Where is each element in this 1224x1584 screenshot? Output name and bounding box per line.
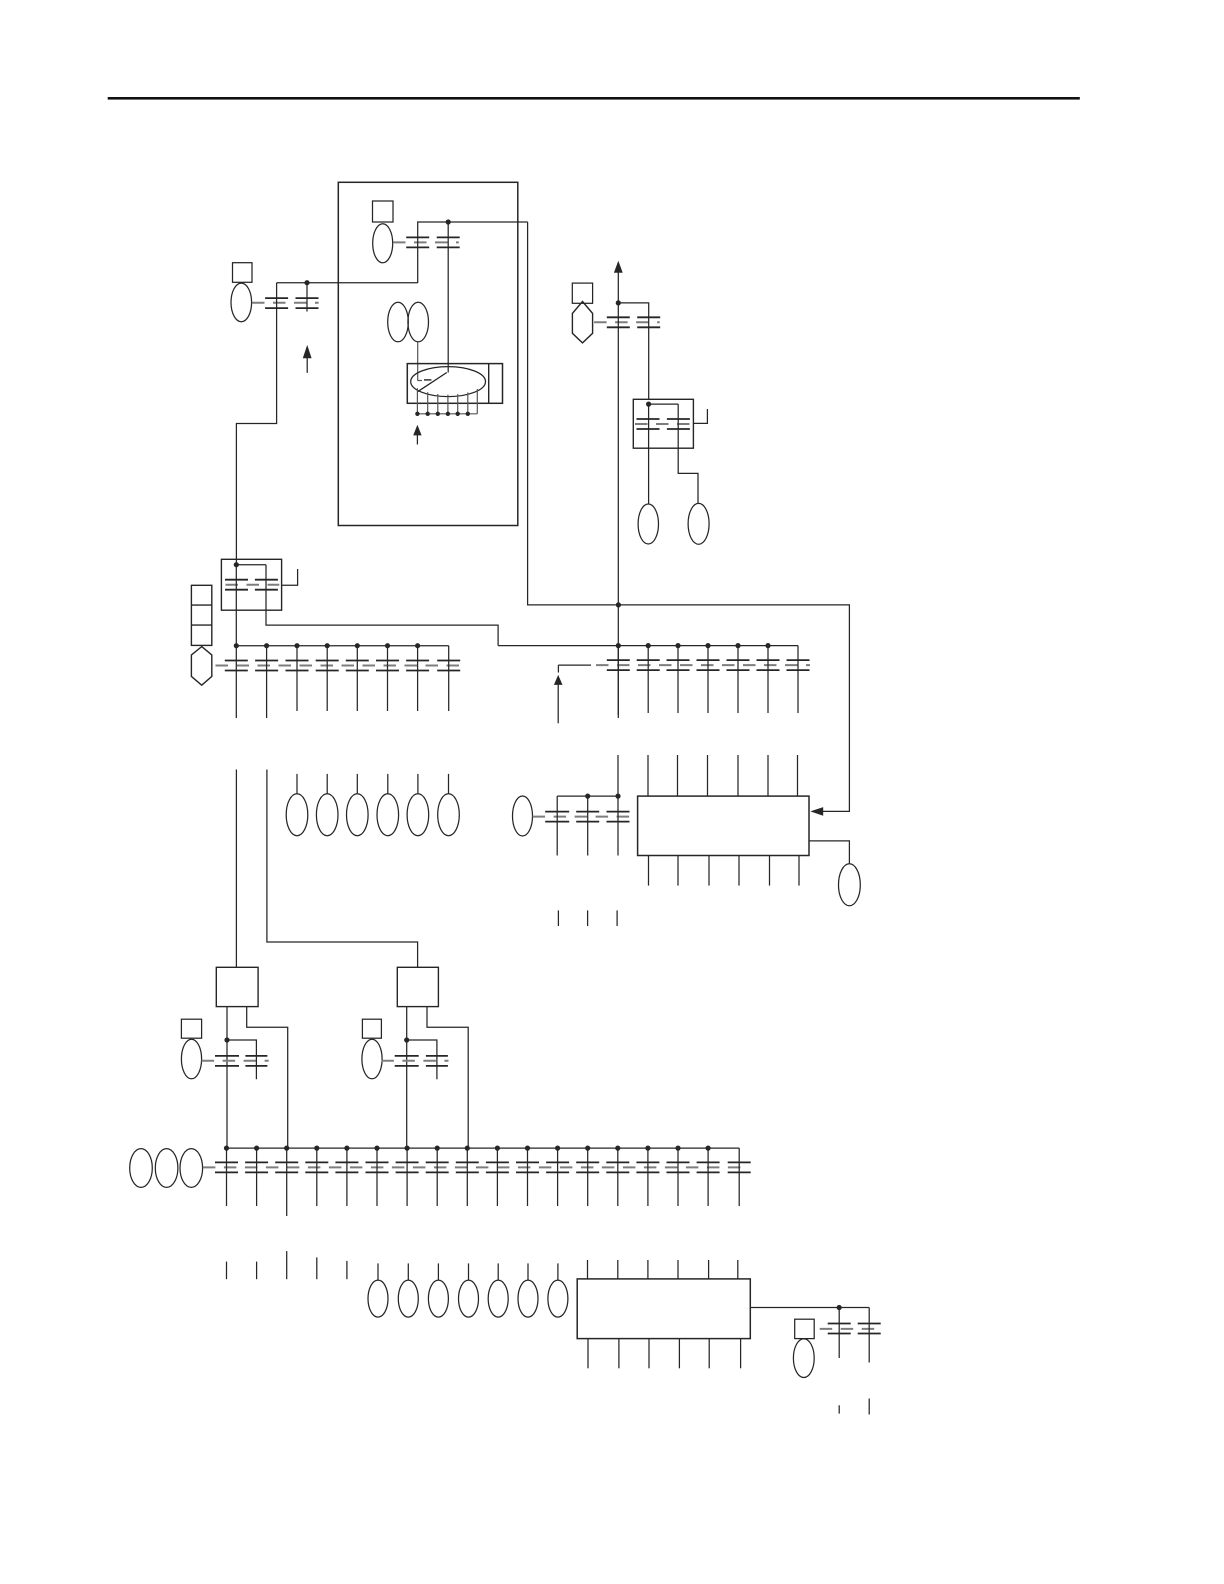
- arrowhead into module U1: [810, 807, 823, 816]
- right row connector pins 5: [727, 660, 750, 670]
- bottom row connector pins 18: [728, 1162, 751, 1172]
- wire M1 left leg: [226, 1007, 228, 1149]
- left row connector pins 1: [225, 661, 248, 671]
- ignition switch contact ticks: [417, 379, 431, 382]
- bottom row connector pins 4: [305, 1162, 328, 1172]
- left row connector pins 3: [286, 661, 309, 671]
- wires C9 verticals: [839, 1308, 869, 1363]
- bottom bus junctions: [224, 1146, 711, 1151]
- bottom row connector pins 15: [636, 1162, 659, 1172]
- ignition switch terminal comb: [417, 388, 477, 414]
- left row connector pins 5: [346, 661, 369, 671]
- wire K2 internal: [649, 403, 679, 405]
- wire C2-A down-left to fuse box: [236, 283, 276, 565]
- connector C1 dashed mate line: [393, 241, 459, 243]
- bottom row connector pins 2: [245, 1162, 268, 1172]
- connector C9 pins half A: [828, 1324, 851, 1334]
- six lamp ovals: [286, 794, 459, 836]
- seven lamp stems: [378, 1263, 558, 1280]
- connector C6 pins 3: [607, 812, 630, 822]
- right row connector pins 6: [757, 660, 780, 670]
- feed arrow up at C3: [614, 261, 623, 273]
- fuse stack shield pin: [191, 647, 211, 686]
- connector C6 pins 1: [545, 812, 569, 822]
- connector C1 square terminal: [373, 201, 394, 222]
- junction at C1 feed: [446, 219, 451, 224]
- wire C2 to C1 horizontal: [277, 282, 418, 284]
- wire arrow stem to junction: [617, 272, 619, 303]
- junction M1: [224, 1037, 229, 1042]
- wire C1-A up-over: [418, 222, 528, 283]
- stubs below C9: [839, 1399, 869, 1415]
- junction W1 x618: [616, 602, 621, 607]
- junction on C2 wire: [304, 280, 309, 285]
- connector C4 dashed mate line: [635, 423, 692, 425]
- module U2 box: [577, 1279, 750, 1339]
- wire K1 down to bus: [235, 565, 237, 646]
- wire to module M1: [235, 770, 237, 968]
- connector C7 cavity oval: [181, 1039, 201, 1079]
- connector C7 square terminal: [181, 1019, 201, 1038]
- wire M1 right leg: [247, 1007, 288, 1149]
- left row connector pins 4: [316, 661, 339, 671]
- bottom row connector pins 3: [275, 1162, 298, 1172]
- relay K1 coil hook: [282, 569, 298, 585]
- instrument cluster enclosure box: [338, 182, 518, 525]
- left row dashed mate line: [216, 665, 460, 667]
- bottom row pig-tails: [227, 1148, 740, 1216]
- wire U1 to lamp L3: [809, 841, 849, 864]
- ignition switch wiper: [418, 373, 447, 392]
- connector C5 pins half A: [225, 580, 248, 590]
- connector C3 shield pin: [572, 302, 592, 343]
- relay K2 coil hook: [693, 409, 707, 423]
- junction in K2: [646, 402, 651, 407]
- stubs below bottom row: [227, 1251, 347, 1279]
- connector C1 pins half B: [437, 237, 460, 247]
- bottom row connector pins 13: [576, 1162, 599, 1172]
- left row connector pins 6: [376, 661, 399, 671]
- module M1 box: [216, 967, 258, 1006]
- ignition terminal rail: [417, 413, 477, 415]
- module U2 top pins: [588, 1260, 738, 1279]
- lamp pair ovals: [388, 302, 429, 342]
- connector C4 pins half A: [637, 419, 660, 429]
- right row connector pins 2: [637, 660, 660, 670]
- wire C3-A long down: [617, 303, 619, 715]
- wire to module M2: [267, 770, 418, 968]
- lamp L3 oval: [839, 864, 861, 906]
- bottom row connector pins 14: [606, 1162, 629, 1172]
- stubs below C6: [558, 910, 617, 926]
- wire C6 top bus: [557, 795, 618, 797]
- wire C1-B down to ignition switch: [447, 222, 449, 373]
- lamp L1 oval: [638, 504, 658, 544]
- bottom row connector pins 12: [546, 1162, 569, 1172]
- right row dashed mate line: [558, 664, 810, 666]
- three lamp ovals: [130, 1149, 203, 1188]
- right row dashed lead-in tick: [557, 665, 559, 672]
- connector C9 square terminal: [795, 1319, 815, 1338]
- wire C8 branch: [407, 1040, 437, 1079]
- ignition switch body: [407, 364, 502, 404]
- wire main feed right: [528, 222, 850, 811]
- junctions C6: [585, 794, 621, 799]
- wire C2-B through pins: [306, 283, 308, 312]
- connector C8 pins half B: [426, 1056, 448, 1066]
- connector C2 dashed mate line: [252, 302, 319, 304]
- right row connector pins 7: [787, 660, 810, 670]
- six lamp stems: [297, 774, 449, 794]
- connector C3 dashed mate line: [594, 321, 660, 323]
- connector C3 square terminal: [572, 283, 592, 303]
- bottom row connector pins 11: [516, 1162, 539, 1172]
- bottom row connector pins 8: [426, 1162, 449, 1172]
- module U1 top pins: [648, 755, 798, 796]
- fuse stack F1 3-cell: [191, 585, 211, 645]
- connector C9 pins half B: [858, 1324, 881, 1334]
- connector C9 dashed mate line: [820, 1328, 883, 1330]
- bottom row connector pins 9: [456, 1162, 479, 1172]
- wire K2 to lamp L2: [678, 404, 698, 503]
- wire C3 branch right: [618, 303, 648, 399]
- module U2 bottom pins: [588, 1339, 741, 1369]
- connector C8 pins half A: [395, 1056, 419, 1066]
- module M2 box: [397, 967, 438, 1006]
- connector C2 square terminal: [233, 263, 253, 283]
- connector C5 pins half B: [255, 580, 278, 590]
- junction at C3: [616, 300, 621, 305]
- connector C1 cavity oval: [373, 224, 393, 263]
- connector C2 pins half A: [265, 298, 288, 308]
- right bus junctions: [616, 643, 771, 648]
- connector C2 cavity oval: [231, 283, 252, 322]
- wire K1-B over to right bus: [266, 565, 498, 646]
- wires C6 verticals: [557, 755, 618, 856]
- bottom row connector pins 1: [215, 1162, 238, 1172]
- connector C6 dashed mate line: [533, 816, 634, 818]
- left row pig-tails: [236, 646, 448, 718]
- ignition terminal dots: [415, 412, 470, 416]
- right bus wire: [498, 645, 798, 647]
- feed arrow into C2-B: [303, 345, 312, 373]
- right row pig-tails: [618, 646, 798, 718]
- bottom row connector pins 5: [335, 1162, 358, 1172]
- junction in K1: [234, 562, 239, 567]
- relay K1 box: [221, 559, 281, 610]
- wire U2 to C9: [750, 1307, 869, 1309]
- wire K1 internal: [236, 564, 266, 566]
- junction C9: [837, 1305, 842, 1310]
- connector C8 cavity oval: [362, 1039, 382, 1079]
- connector C8 square terminal: [362, 1019, 381, 1038]
- junction M2: [404, 1037, 409, 1042]
- wire lamp to switch (thin): [417, 342, 419, 381]
- connector C7 pins half A: [215, 1056, 239, 1066]
- connector C6 cavity oval: [513, 796, 533, 836]
- connector C6 pins 2: [576, 812, 599, 822]
- wire M2 left leg: [406, 1007, 408, 1149]
- ignition switch divider: [488, 364, 490, 404]
- connector C4 pins half B: [667, 419, 690, 429]
- connector C5 dashed mate line: [226, 584, 280, 586]
- relay K2 box: [633, 399, 693, 448]
- feed arrow at right row: [554, 675, 563, 723]
- left row connector pins 2: [255, 661, 278, 671]
- left bus wire: [236, 645, 448, 647]
- connector C9 cavity oval: [793, 1339, 814, 1378]
- lamp L2 oval: [688, 503, 709, 544]
- bottom bus wire: [227, 1147, 740, 1149]
- right row connector pins 4: [697, 660, 720, 670]
- connector C3 pins half B: [637, 317, 660, 327]
- left row connector pins 8: [437, 661, 460, 671]
- wire M2 right leg: [427, 1007, 468, 1149]
- seven lamp ovals: [368, 1280, 568, 1317]
- left bus junctions: [234, 643, 421, 648]
- connector C7 dashed mate line: [202, 1060, 269, 1062]
- bottom row connector pins 7: [396, 1162, 419, 1172]
- connector C7 pins half B: [245, 1056, 267, 1066]
- right row connector pins 3: [667, 660, 690, 670]
- bottom row dashed mate line: [203, 1166, 748, 1168]
- module U1 bottom pins: [649, 856, 800, 886]
- ignition switch rotor oval: [411, 367, 486, 397]
- bottom row connector pins 16: [667, 1162, 690, 1172]
- module U1 box: [638, 796, 809, 855]
- bottom row connector pins 10: [486, 1162, 509, 1172]
- left row connector pins 7: [406, 661, 429, 671]
- top rule: [108, 97, 1080, 100]
- bottom row connector pins 6: [366, 1162, 389, 1172]
- wire C7 branch: [227, 1040, 256, 1079]
- connector C8 dashed mate line: [381, 1060, 448, 1062]
- bottom row connector pins 17: [697, 1162, 720, 1172]
- wire K2 to lamp L1: [648, 404, 650, 504]
- right row connector pins 1: [607, 660, 630, 670]
- feed arrow into ignition: [413, 425, 421, 445]
- connector C3 pins half A: [607, 317, 630, 327]
- connector C2 pins half B: [296, 298, 319, 308]
- connector C1 pins half A: [406, 237, 429, 247]
